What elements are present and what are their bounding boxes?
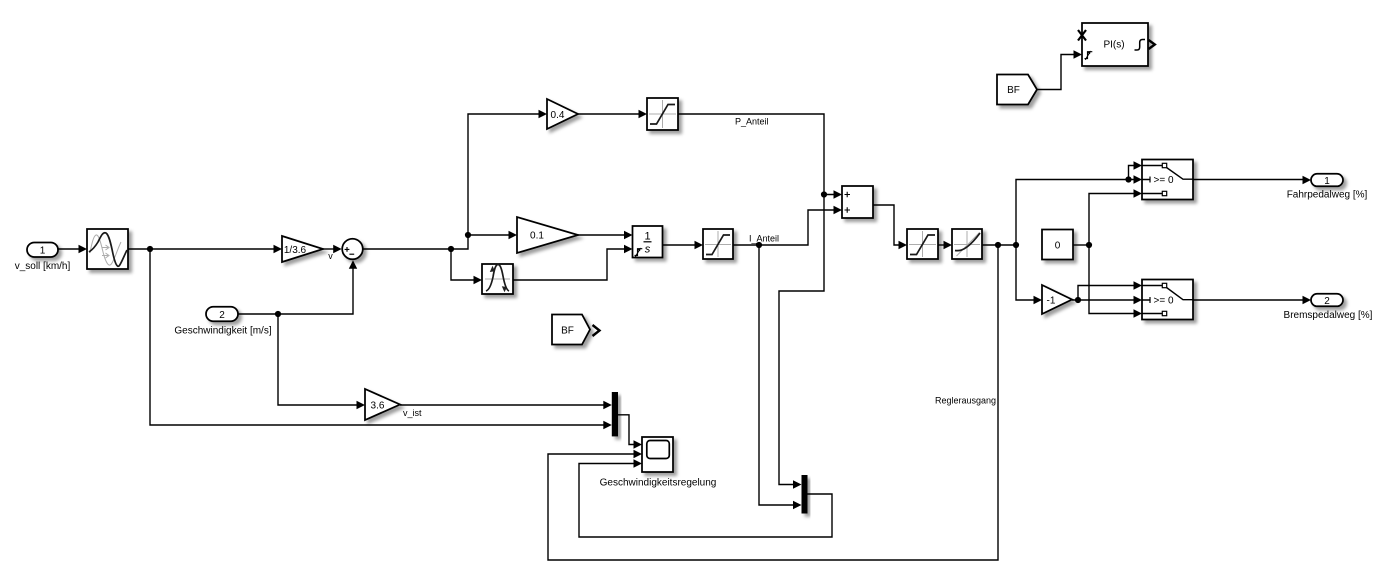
wire down to gain -1 — [1016, 245, 1042, 304]
wire I branch to mux2 input 2 — [756, 242, 802, 509]
svg-text:-1: -1 — [1047, 296, 1056, 307]
svg-text:>= 0: >= 0 — [1154, 296, 1174, 307]
svg-text:3.6: 3.6 — [371, 401, 385, 412]
scope Geschwindigkeitsregelung — [600, 437, 717, 489]
wire inport2 to sum minus input — [238, 260, 357, 314]
svg-text:v_ist: v_ist — [403, 408, 422, 418]
svg-text:0.4: 0.4 — [551, 110, 565, 121]
svg-text:Reglerausgang: Reglerausgang — [935, 396, 996, 406]
wire inport1 to shaper — [58, 245, 87, 253]
signal shaper block (sine icon) — [87, 229, 128, 269]
wire reset detector to integrator input 2 — [513, 245, 633, 280]
mux1 — [612, 392, 618, 436]
wire switch2 to outport 2 — [1193, 296, 1311, 304]
wire I_Anteil to sum input 2 — [733, 206, 842, 245]
svg-text:I_Anteil: I_Anteil — [749, 234, 779, 244]
wire shaper to gain 1/3.6 — [128, 245, 282, 253]
saturation3 — [907, 229, 938, 259]
goto tag BF — [552, 315, 600, 345]
svg-text:1: 1 — [1324, 176, 1330, 187]
svg-text:v: v — [328, 251, 333, 261]
svg-text:1: 1 — [644, 231, 650, 243]
wire gain -1 to switch2 control and input 1 — [1072, 281, 1142, 304]
from tag BF (top right) — [997, 75, 1037, 105]
svg-text:BF: BF — [1007, 85, 1020, 96]
wire constant 0 to switch1 input 3 and switch2 input 3 — [1073, 189, 1142, 317]
pedal map lookup block — [952, 229, 982, 259]
svg-text:Bremspedalweg [%]: Bremspedalweg [%] — [1284, 310, 1373, 321]
svg-text:Fahrpedalweg [%]: Fahrpedalweg [%] — [1287, 190, 1368, 201]
sum junction — [342, 239, 363, 260]
wire gain 1/3.6 to sum — [323, 245, 342, 253]
PI(s) controller block — [1078, 23, 1155, 66]
inport 2 Geschwindigkeit [m/s] — [174, 307, 271, 337]
gain -1 — [1042, 285, 1072, 314]
inport 1 v_soll [km/h] — [15, 243, 71, 273]
wire branch down to gain 3.6 — [275, 311, 365, 409]
svg-text:>= 0: >= 0 — [1154, 175, 1174, 186]
svg-text:2: 2 — [219, 310, 225, 321]
outport 1 Fahrpedalweg [%] — [1287, 174, 1368, 201]
svg-text:BF: BF — [561, 326, 574, 337]
gain 0.4 — [547, 99, 578, 129]
wire switch1 to outport 1 — [1193, 176, 1311, 184]
reset detector block (bell curve icon) — [482, 264, 513, 294]
wire sum to saturation3 — [873, 205, 907, 249]
wire branch to gain 0.1 — [465, 231, 517, 239]
svg-text:s: s — [645, 244, 651, 256]
gain 3.6 — [365, 389, 400, 420]
svg-text:0: 0 — [1055, 241, 1061, 252]
switch1 — [1142, 160, 1193, 200]
integrator 1/s with reset — [633, 226, 663, 258]
svg-text:PI(s): PI(s) — [1103, 40, 1124, 51]
wire gain 3.6 to mux1 input 1 — [400, 401, 612, 409]
svg-text:1/3.6: 1/3.6 — [284, 245, 307, 256]
wire gain 0.4 to saturation1 — [578, 110, 647, 118]
saturation1 — [647, 98, 678, 130]
wire branch to reset detector — [448, 246, 482, 284]
svg-text:v_soll [km/h]: v_soll [km/h] — [15, 261, 71, 272]
wire from BF to PI(s) reset input — [1037, 50, 1082, 89]
wire pedal map to switch column — [982, 242, 1016, 248]
switch2 — [1142, 280, 1193, 320]
svg-text:1: 1 — [40, 246, 46, 257]
wire integrator to saturation2 — [663, 241, 704, 249]
saturation2 — [703, 229, 733, 259]
wire mux1 to scope input 1 — [618, 415, 642, 449]
gain 0.1 — [517, 217, 578, 253]
constant 0 — [1042, 230, 1073, 260]
wire to switch1 control and input 1 — [1013, 161, 1142, 248]
svg-text:Geschwindigkeit [m/s]: Geschwindigkeit [m/s] — [174, 326, 271, 337]
wire saturation3 to pedal map — [938, 241, 952, 249]
gain 1/3.6 — [282, 236, 323, 262]
svg-text:0.1: 0.1 — [530, 231, 544, 242]
sum block P+I — [842, 186, 873, 218]
wire P branch to mux2 input 1 — [779, 191, 827, 488]
outport 2 Bremspedalweg [%] — [1284, 294, 1373, 321]
svg-text:Geschwindigkeitsregelung: Geschwindigkeitsregelung — [600, 478, 717, 489]
wire P_Anteil to sum input 1 — [678, 114, 842, 199]
wire Reglerausgang feedback to scope input 2 — [548, 245, 998, 560]
wire sum to P/I branch point — [363, 110, 547, 249]
wire mux2 to scope input 3 — [579, 459, 832, 537]
svg-text:P_Anteil: P_Anteil — [735, 117, 769, 127]
wire gain 0.1 to integrator input 1 — [578, 231, 633, 239]
mux2 — [802, 475, 808, 514]
wire branch down to mux1 input 2 — [147, 246, 612, 429]
svg-text:2: 2 — [1324, 296, 1330, 307]
